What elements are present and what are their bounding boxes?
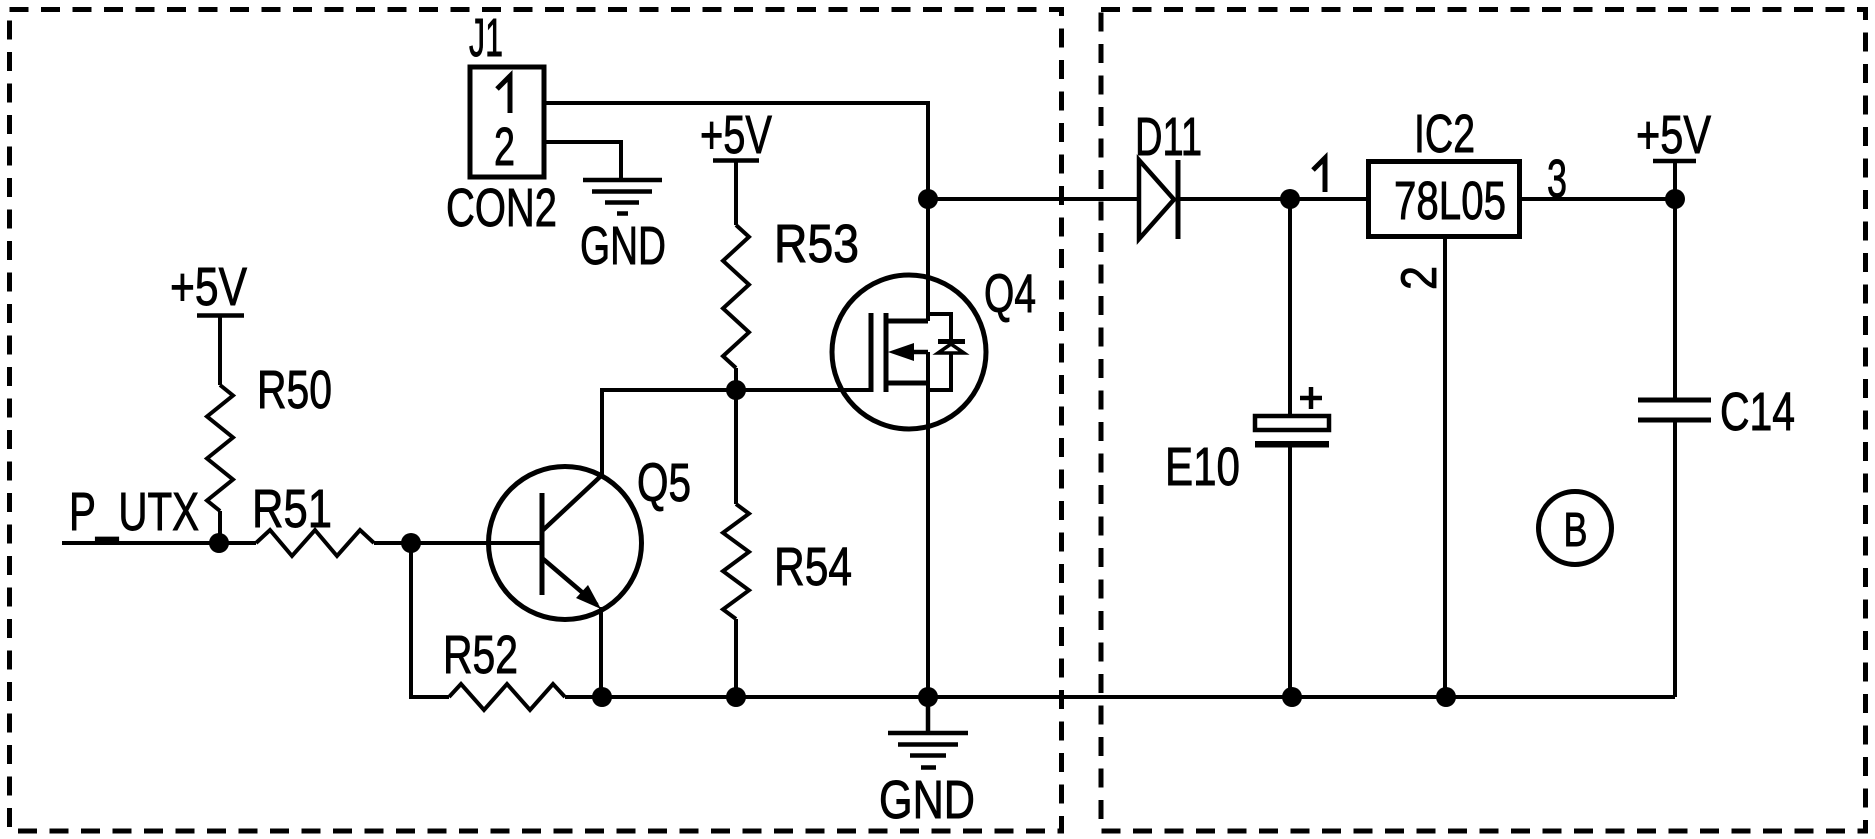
- svg-text:R51: R51: [252, 479, 332, 539]
- node dot C14 junction: [1665, 189, 1685, 209]
- power +5V symbol 2: [713, 160, 759, 225]
- svg-text:J1: J1: [469, 8, 503, 68]
- power +5V symbol 1: [197, 316, 244, 386]
- svg-text:2: 2: [1391, 266, 1447, 290]
- node dot gate junction: [726, 380, 746, 400]
- wire J1 pin2 to ground: [546, 142, 621, 180]
- resistor R50: [207, 385, 233, 511]
- capacitor C14: [1638, 400, 1711, 420]
- wire Q4 source to ground bus: [926, 352, 930, 697]
- svg-text:E10: E10: [1165, 437, 1240, 497]
- pin 1 label: [497, 76, 510, 113]
- node dot drain junction: [918, 189, 938, 209]
- svg-text:R52: R52: [443, 625, 518, 685]
- wire J1 pin1 to node A and Q4 drain: [546, 103, 928, 321]
- wire R54 to ground bus: [734, 619, 738, 697]
- svg-text:Q4: Q4: [984, 264, 1036, 324]
- E10 plus sign: [1300, 387, 1322, 409]
- wire IC2 pin2 to ground bus: [1443, 239, 1447, 697]
- svg-text:R50: R50: [257, 360, 332, 420]
- node dot R54-bus: [726, 687, 746, 707]
- svg-text:C14: C14: [1720, 382, 1795, 442]
- wire D11 to IC2 pin1: [1178, 197, 1366, 201]
- svg-text:B: B: [1564, 504, 1588, 557]
- wire +5V node to C14: [1673, 199, 1677, 400]
- transistor Q5: [489, 467, 642, 620]
- svg-text:2: 2: [494, 117, 515, 177]
- wire P_UTX input: [62, 541, 256, 545]
- wire gate node to R54: [734, 390, 738, 504]
- node dot E10-bus: [1282, 687, 1302, 707]
- node dot source-bus: [918, 687, 938, 707]
- svg-text:+5V: +5V: [170, 257, 247, 317]
- resistor R53: [723, 225, 749, 368]
- section marker B: [1539, 492, 1612, 565]
- node dot emitter-bus: [592, 687, 612, 707]
- wire R50 to node: [218, 511, 222, 543]
- mosfet Q4: [832, 275, 986, 429]
- svg-text:R54: R54: [774, 537, 852, 597]
- connector J1: [470, 67, 544, 177]
- svg-text:GND: GND: [879, 770, 975, 830]
- wire node to E10: [1288, 199, 1292, 416]
- wire Q5 collector to gate line: [602, 390, 871, 476]
- ground bus wire: [602, 695, 1675, 699]
- wire C14 to ground bus: [1673, 420, 1677, 697]
- capacitor E10 electrolytic: [1255, 416, 1329, 448]
- ground symbol GND2: [888, 697, 968, 768]
- power +5V symbol 3: [1653, 161, 1696, 199]
- wire node A to D11: [928, 197, 1137, 201]
- svg-text:R53: R53: [774, 214, 859, 274]
- node dot pin2-bus: [1436, 687, 1456, 707]
- pin 1 label IC2: [1313, 158, 1325, 192]
- resistor R51: [256, 530, 374, 556]
- svg-text:D11: D11: [1135, 107, 1202, 167]
- svg-text:GND: GND: [580, 216, 666, 276]
- svg-text:78L05: 78L05: [1394, 171, 1506, 231]
- wire R52 to ground bus: [565, 695, 602, 699]
- svg-text:IC2: IC2: [1414, 104, 1475, 164]
- resistor R52: [449, 684, 565, 710]
- diode D11: [1139, 160, 1178, 239]
- svg-text:+5V: +5V: [1636, 105, 1711, 165]
- wire IC2 pin3 to +5V node: [1522, 197, 1675, 201]
- wire Q5 emitter to ground bus: [599, 607, 603, 697]
- wire junction down to R52: [411, 543, 449, 697]
- ground symbol GND1: [583, 180, 662, 214]
- regulator IC2: [1369, 162, 1520, 237]
- wire R53 to gate node: [734, 368, 738, 390]
- svg-text:Q5: Q5: [637, 453, 691, 513]
- svg-text:+5V: +5V: [700, 105, 772, 165]
- node dot at base junction: [401, 533, 421, 553]
- svg-text:P_UTX: P_UTX: [69, 482, 199, 542]
- node dot at R50 junction: [209, 533, 229, 553]
- wire E10 to ground bus: [1288, 447, 1292, 697]
- node dot E10 junction: [1280, 189, 1300, 209]
- wire R51 to Q5 base: [374, 541, 542, 545]
- resistor R54: [723, 504, 749, 619]
- svg-text:CON2: CON2: [446, 178, 557, 238]
